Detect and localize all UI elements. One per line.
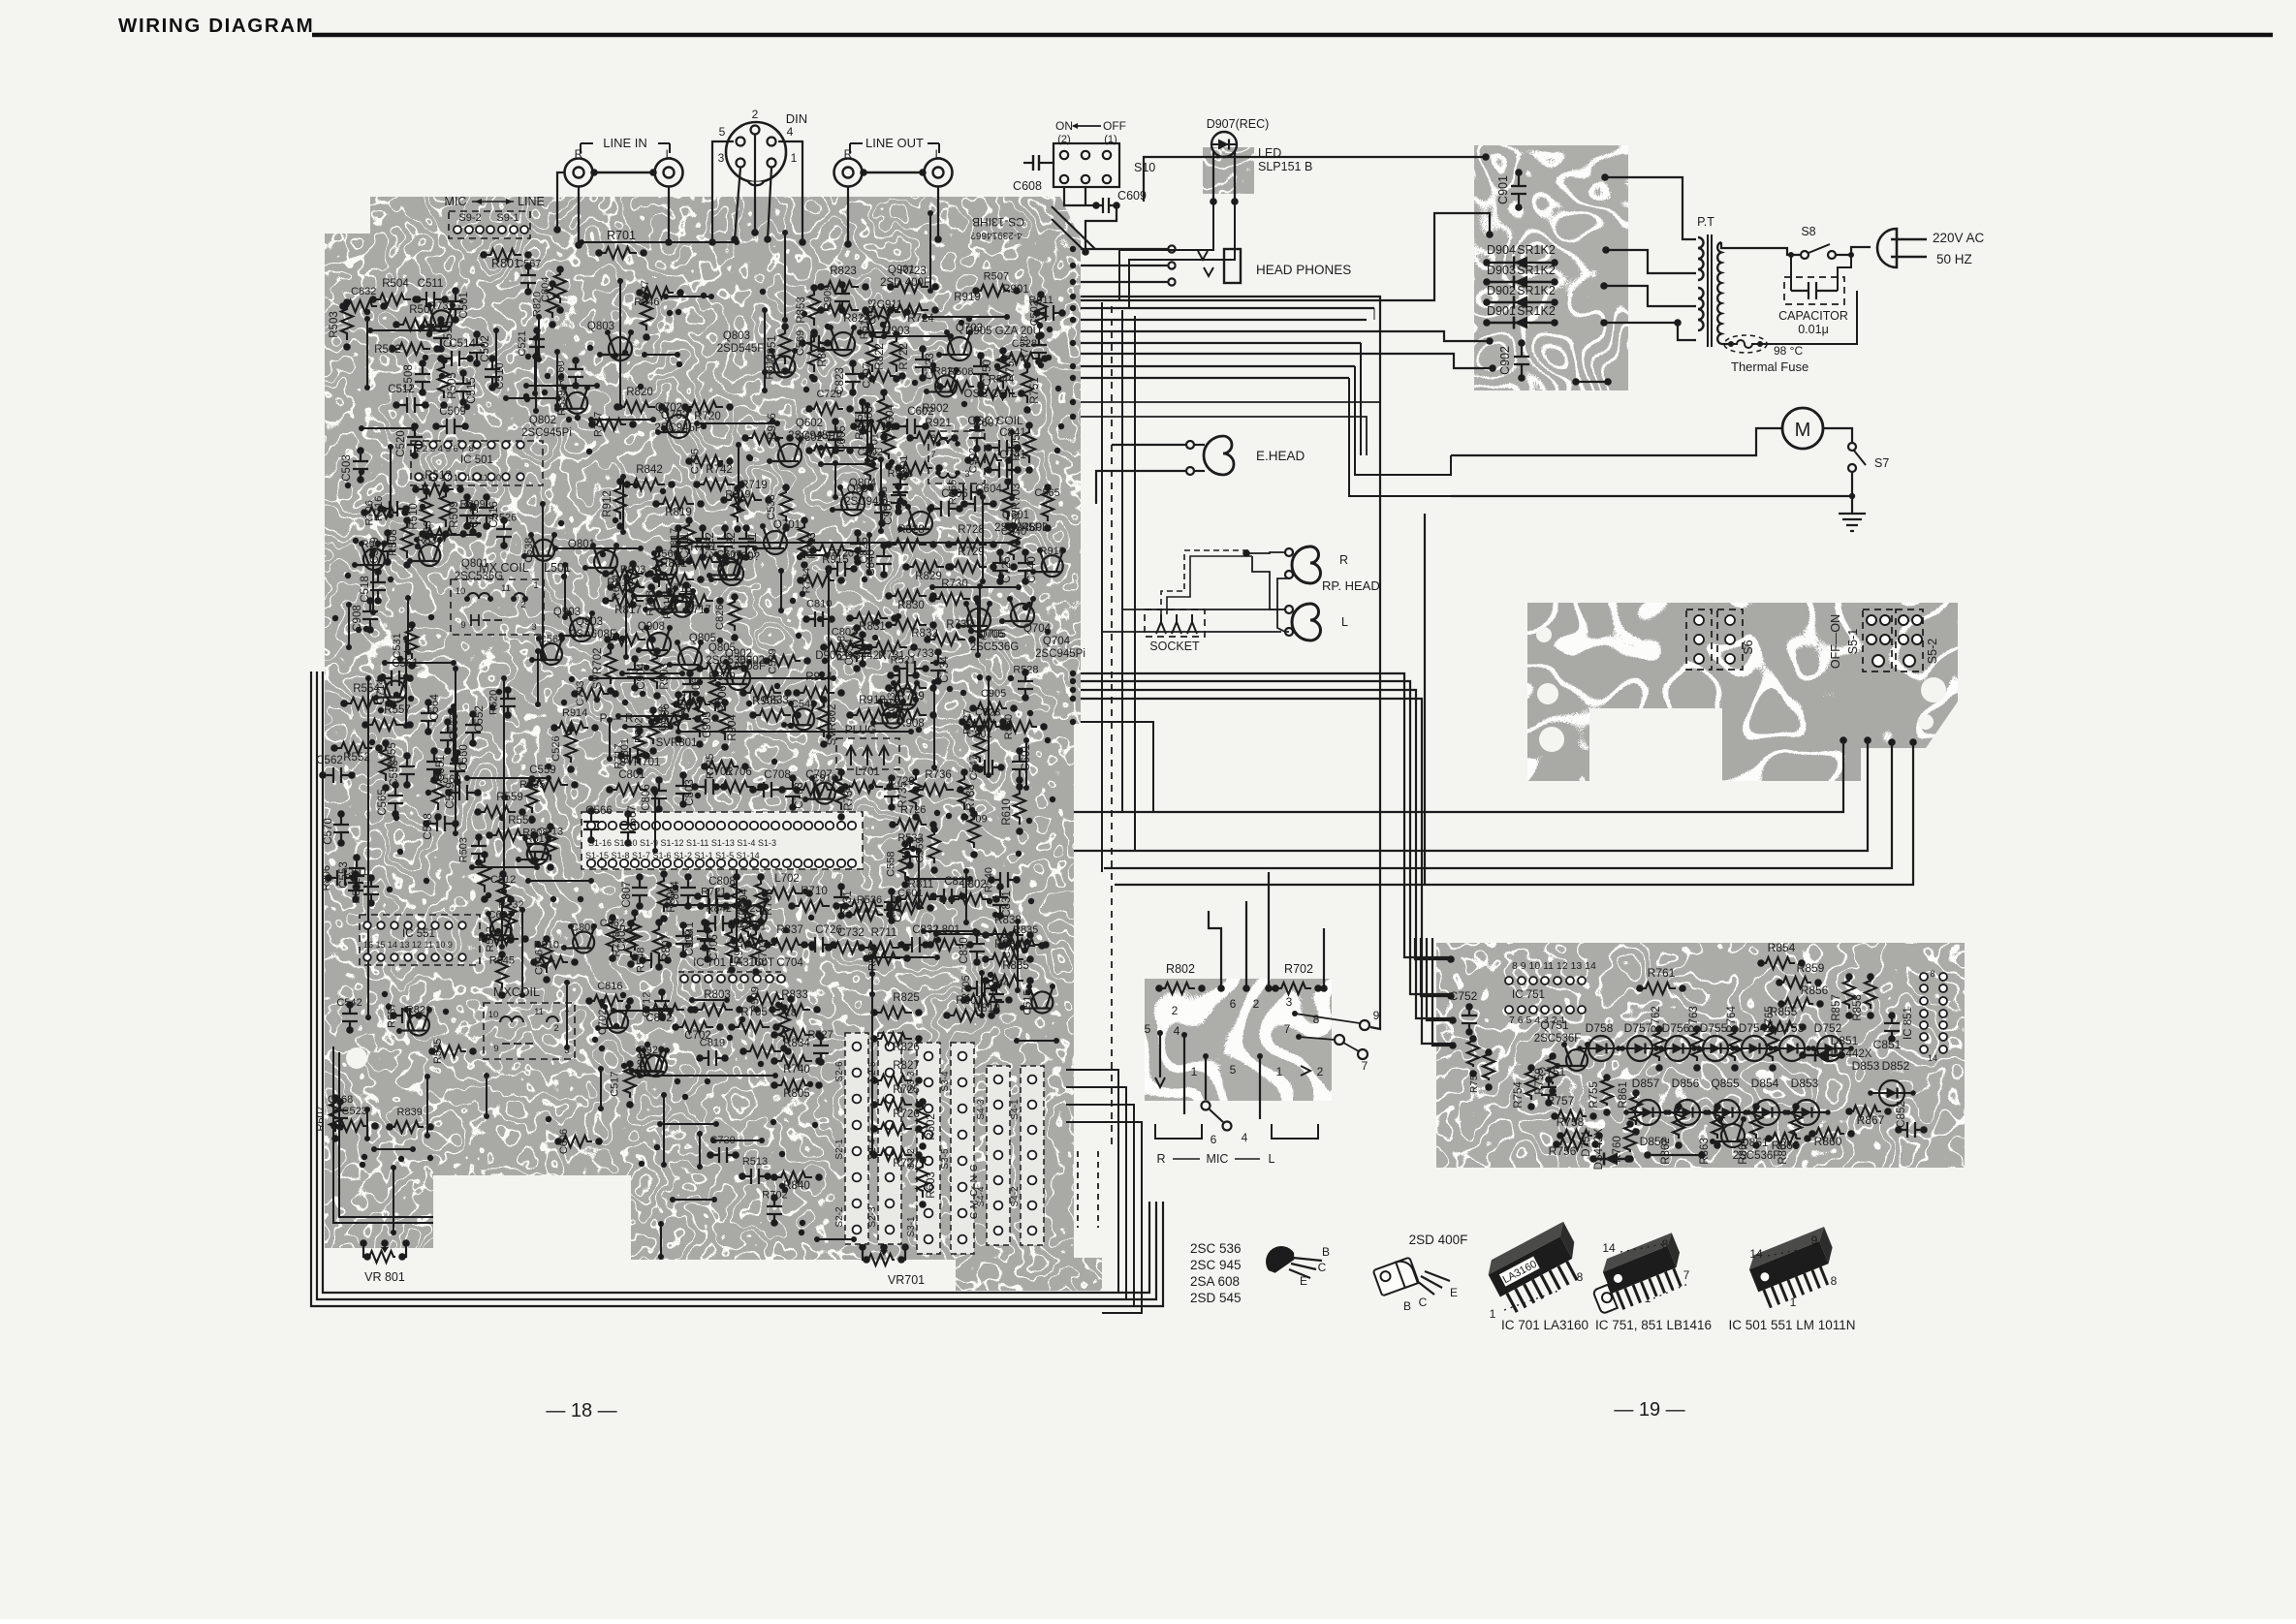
- component Q902: [727, 667, 750, 690]
- svg-text:S5-1: S5-1: [1846, 629, 1860, 654]
- svg-text:C527: C527: [640, 280, 651, 305]
- component C734: [930, 652, 946, 681]
- component R737?: [845, 900, 883, 912]
- component C732: [829, 942, 866, 953]
- head RP.HEAD R: [1292, 547, 1321, 583]
- component R703: [750, 927, 762, 965]
- component C808: [698, 889, 727, 904]
- svg-text:C705: C705: [689, 449, 701, 474]
- svg-text:R802: R802: [1166, 962, 1195, 976]
- svg-text:8: 8: [1313, 1013, 1320, 1026]
- svg-text:C702: C702: [597, 1010, 609, 1035]
- switch S10: [1054, 143, 1119, 187]
- svg-text:WIRING DIAGRAM: WIRING DIAGRAM: [118, 15, 314, 37]
- component R550: [1003, 721, 1037, 733]
- component C513: [433, 320, 449, 349]
- svg-text:R912: R912: [602, 490, 613, 517]
- component C823: [967, 721, 1001, 733]
- component R834: [419, 545, 440, 566]
- svg-text:C531: C531: [392, 633, 403, 658]
- wire corner diagonals: [1052, 206, 1095, 249]
- svg-text:1: 1: [1191, 1065, 1198, 1078]
- svg-text:D756: D756: [1662, 1021, 1690, 1035]
- component R751: [1022, 365, 1033, 403]
- component C516: [534, 956, 568, 968]
- potentiometer VR801: [360, 1239, 367, 1247]
- component R909: [834, 285, 850, 310]
- component C909: [676, 925, 691, 954]
- component R548: [643, 953, 668, 968]
- svg-text:R805: R805: [783, 1088, 810, 1100]
- svg-text:2: 2: [752, 108, 759, 121]
- component Q602: [778, 444, 802, 467]
- component R727: [874, 1149, 912, 1161]
- svg-text:2SC536: 2SC536: [706, 655, 746, 667]
- component R513: [742, 1169, 768, 1184]
- connector S9-2/S9-1: [449, 211, 530, 238]
- component R510: [421, 491, 432, 529]
- svg-text:R731: R731: [428, 300, 454, 312]
- svg-text:Q751: Q751: [1540, 1018, 1569, 1032]
- component R520: [500, 690, 516, 715]
- svg-text:C511: C511: [418, 278, 444, 290]
- svg-text:R75?: R75?: [1469, 1070, 1480, 1093]
- component C730: [710, 1147, 736, 1163]
- component R508: [940, 381, 974, 392]
- component C803: [676, 775, 691, 804]
- svg-text:R822: R822: [933, 365, 959, 377]
- svg-text:IC 501 551 LM 1011N: IC 501 551 LM 1011N: [1728, 1318, 1855, 1332]
- component C711: [739, 528, 754, 557]
- resistor R752/R753 cluster: [1467, 1039, 1479, 1067]
- component R853: [808, 288, 820, 326]
- svg-text:(1): (1): [1104, 134, 1117, 145]
- svg-text:C548: C548: [791, 699, 816, 710]
- component C832: [901, 937, 930, 953]
- svg-text:SVR702: SVR702: [592, 648, 604, 690]
- component R509: [440, 489, 452, 527]
- component C802: [646, 1004, 684, 1015]
- svg-text:HEAD PHONES: HEAD PHONES: [1256, 263, 1351, 277]
- svg-text:R760: R760: [1612, 1136, 1623, 1163]
- wire S10 to board: [1064, 187, 1096, 205]
- svg-text:R: R: [1156, 1152, 1165, 1166]
- svg-text:C608: C608: [1013, 179, 1042, 193]
- svg-text:R835: R835: [1002, 960, 1029, 972]
- svg-text:2: 2: [1172, 1004, 1179, 1017]
- svg-text:— 19 —: — 19 —: [1614, 1399, 1684, 1421]
- component C726: [804, 937, 833, 953]
- component R723: [742, 903, 754, 937]
- component R817: [606, 595, 644, 607]
- svg-text:S4-1: S4-1: [1010, 1099, 1021, 1120]
- svg-text:R511: R511: [666, 586, 677, 610]
- svg-text:Q602: Q602: [796, 418, 823, 429]
- component C569: [449, 785, 478, 800]
- svg-text:R912: R912: [817, 430, 842, 442]
- component R851: [779, 327, 791, 364]
- component R508: [401, 520, 413, 558]
- component R603: [917, 1160, 928, 1198]
- svg-text:R757: R757: [1547, 1094, 1575, 1108]
- svg-text:S2-6: S2-6: [834, 1061, 845, 1082]
- component R554: [344, 698, 382, 709]
- svg-text:R903: R903: [620, 564, 645, 576]
- svg-text:3: 3: [531, 622, 536, 633]
- component C825: [850, 533, 865, 562]
- component Q90?: [720, 562, 743, 585]
- svg-text:R756: R756: [1549, 1144, 1577, 1158]
- svg-text:SLP151 B: SLP151 B: [1258, 160, 1312, 173]
- component C508: [415, 363, 430, 392]
- svg-text:7: 7: [1284, 1022, 1291, 1036]
- component C566: [656, 558, 677, 579]
- svg-text:C: C: [1318, 1261, 1327, 1274]
- component L701: [845, 781, 883, 793]
- svg-text:R721: R721: [701, 886, 726, 897]
- component R526: [496, 520, 512, 546]
- component C521: [529, 330, 545, 356]
- component R835: [1005, 939, 1039, 951]
- svg-text:LINE IN: LINE IN: [603, 136, 647, 150]
- wire bundle main to right: [1070, 294, 1076, 299]
- svg-text:C823: C823: [975, 706, 1000, 718]
- svg-text:C606: C606: [558, 1129, 570, 1154]
- component R503: [471, 837, 487, 862]
- component R832: [889, 619, 927, 631]
- svg-text:R735: R735: [519, 779, 545, 791]
- svg-text:6: 6: [1211, 1133, 1217, 1146]
- component C531: [406, 625, 418, 659]
- component R555: [955, 484, 980, 500]
- component C511: [416, 292, 445, 307]
- svg-text:R504: R504: [382, 278, 409, 290]
- component R821: [408, 1015, 429, 1036]
- component R916: [745, 432, 783, 444]
- component R912: [614, 482, 626, 519]
- component R919: [732, 488, 743, 522]
- svg-text:C558: C558: [885, 852, 896, 877]
- component R560: [432, 772, 444, 810]
- svg-text:R527: R527: [808, 1029, 833, 1041]
- svg-text:C567: C567: [516, 259, 541, 270]
- component R918: [893, 476, 908, 501]
- svg-text:C514: C514: [449, 338, 476, 350]
- component C520: [407, 426, 423, 455]
- svg-text:C703: C703: [794, 782, 805, 809]
- component R601: [734, 935, 768, 947]
- wire S5/S6 drops: [1840, 736, 1847, 744]
- component C750: [973, 356, 989, 385]
- svg-text:R51?: R51?: [425, 470, 452, 482]
- svg-text:R845: R845: [854, 414, 865, 439]
- component C807: [632, 877, 647, 906]
- component C607: [969, 420, 985, 449]
- component R803: [695, 1004, 733, 1015]
- component C708: [753, 782, 782, 797]
- svg-text:2: 2: [553, 1023, 558, 1034]
- socket SOCKET: [1145, 609, 1205, 637]
- svg-text:16 15 14 13 12 11 10 9: 16 15 14 13 12 11 10 9: [363, 940, 453, 950]
- svg-text:R730: R730: [941, 578, 968, 590]
- component C829: [933, 889, 962, 904]
- svg-text:0.01μ: 0.01μ: [1798, 323, 1829, 336]
- component R810: [964, 994, 1002, 1006]
- component C805: [629, 913, 641, 951]
- svg-text:R738: R738: [645, 590, 656, 615]
- svg-text:R830: R830: [897, 600, 925, 611]
- svg-text:C569: C569: [445, 782, 456, 809]
- component C740: [1018, 552, 1033, 581]
- svg-text:220V AC: 220V AC: [1933, 231, 1985, 245]
- component R819: [527, 843, 549, 864]
- svg-text:R921: R921: [925, 418, 952, 429]
- svg-text:C: C: [1419, 1296, 1428, 1309]
- head RP.HEAD L: [1292, 604, 1321, 640]
- component R527: [813, 1037, 829, 1062]
- component R732: [928, 634, 965, 645]
- potentiometer VR701: [859, 1243, 866, 1251]
- component R718: [1031, 336, 1047, 361]
- svg-text:R823: R823: [830, 265, 857, 277]
- svg-text:L: L: [1341, 615, 1348, 629]
- svg-text:C567: C567: [627, 805, 639, 832]
- component R738: [654, 593, 676, 614]
- svg-text:4: 4: [1242, 1131, 1248, 1144]
- svg-text:R811: R811: [676, 692, 688, 716]
- connector S6 pads: [1686, 609, 1712, 670]
- component R912: [809, 445, 843, 456]
- component R505: [438, 360, 450, 398]
- component R557: [393, 1008, 419, 1023]
- svg-text:R751: R751: [1029, 377, 1041, 404]
- component R824: [821, 304, 859, 316]
- svg-text:C516: C516: [534, 950, 546, 975]
- component R722: [745, 905, 767, 926]
- component C718: [778, 1008, 790, 1042]
- svg-text:1: 1: [1276, 1065, 1283, 1078]
- svg-text:C552: C552: [474, 705, 486, 733]
- component R801: [634, 731, 645, 765]
- component R555: [380, 743, 392, 781]
- component C561: [381, 671, 410, 686]
- component C528: [1004, 353, 1038, 364]
- svg-text:C831: C831: [1001, 890, 1013, 918]
- svg-text:C714: C714: [375, 678, 387, 703]
- svg-text:3: 3: [1286, 995, 1293, 1009]
- svg-text:R544: R544: [984, 978, 1009, 989]
- component R704: [801, 575, 834, 586]
- svg-text:C568: C568: [328, 1094, 353, 1106]
- component C703: [785, 778, 801, 807]
- svg-text:C729: C729: [816, 389, 841, 400]
- svg-text:C609: C609: [1117, 189, 1147, 203]
- component R910: [1042, 555, 1063, 577]
- svg-text:D905 GZA 20U: D905 GZA 20U: [965, 326, 1041, 337]
- svg-text:R728: R728: [958, 524, 985, 536]
- wire internal long runs: [678, 542, 1018, 544]
- component C552: [465, 714, 481, 743]
- svg-text:C851: C851: [1873, 1038, 1902, 1051]
- component R706: [716, 781, 754, 793]
- component R560: [568, 360, 583, 386]
- wire LINE IN L down: [668, 186, 670, 242]
- component R536: [849, 909, 883, 921]
- svg-text:C807: C807: [621, 881, 633, 908]
- svg-text:C543: C543: [866, 299, 878, 325]
- svg-text:14: 14: [1602, 1241, 1616, 1255]
- component R832: [363, 878, 379, 903]
- svg-text:D852: D852: [1882, 1059, 1910, 1073]
- svg-text:SR1K2: SR1K2: [1517, 264, 1556, 277]
- component R741: [681, 556, 719, 568]
- transistor TO-92 drawing: [1260, 1240, 1298, 1275]
- svg-text:S2-3: S2-3: [867, 1206, 878, 1228]
- component C832: [343, 300, 377, 312]
- svg-text:R866: R866: [1772, 1139, 1800, 1152]
- component R735: [526, 779, 538, 813]
- svg-text:C520: C520: [395, 430, 407, 457]
- svg-text:S2-1: S2-1: [834, 1139, 845, 1160]
- component C519: [380, 533, 395, 562]
- svg-text:C905: C905: [702, 711, 713, 738]
- svg-text:C811: C811: [343, 866, 367, 878]
- svg-text:Q801: Q801: [461, 558, 488, 570]
- svg-text:14: 14: [1749, 1247, 1763, 1261]
- component R914: [797, 687, 834, 699]
- svg-text:R535: R535: [432, 1039, 444, 1064]
- svg-text:C566: C566: [653, 548, 678, 560]
- component R820: [547, 284, 558, 318]
- svg-text:11: 11: [501, 583, 511, 594]
- component C605: [828, 422, 843, 451]
- svg-text:SR1K2: SR1K2: [1517, 243, 1556, 257]
- component R716: [381, 501, 406, 516]
- component R717: [676, 595, 713, 607]
- component C508: [1001, 940, 1035, 952]
- svg-text:D757: D757: [1624, 1021, 1652, 1035]
- component R807: [653, 922, 665, 960]
- component R811: [676, 699, 710, 710]
- svg-text:Thermal Fuse: Thermal Fuse: [1731, 359, 1808, 374]
- svg-text:R904: R904: [727, 714, 739, 741]
- component C526: [565, 729, 577, 763]
- component R822: [866, 334, 878, 372]
- component R742: [697, 479, 735, 490]
- svg-text:R854: R854: [1768, 941, 1796, 954]
- component C741: [989, 462, 1018, 478]
- component Q801: [594, 550, 617, 574]
- wire power board right: [1601, 173, 1609, 181]
- svg-text:R513: R513: [742, 1156, 768, 1168]
- component C729: [884, 778, 899, 807]
- svg-text:R736: R736: [880, 697, 905, 708]
- switch S7: [1848, 443, 1856, 451]
- svg-text:R863: R863: [1699, 1138, 1711, 1165]
- component C542: [342, 1005, 358, 1030]
- component C908: [362, 601, 378, 630]
- svg-text:R819: R819: [665, 507, 692, 518]
- component R706: [364, 507, 398, 518]
- svg-text:L701: L701: [855, 766, 880, 778]
- component (unlabeled): [832, 332, 855, 356]
- wire LINE IN R down: [557, 172, 565, 230]
- component C811: [671, 528, 686, 557]
- component C823: [845, 363, 861, 392]
- component R710: [792, 900, 830, 912]
- component Q804: [841, 492, 865, 515]
- component C817: [683, 520, 695, 554]
- svg-text:C562: C562: [316, 755, 343, 766]
- svg-text:R822: R822: [874, 343, 886, 370]
- wire inner loop bottom-left: [333, 1046, 433, 1223]
- svg-text:C830: C830: [959, 937, 970, 964]
- component Q903: [570, 618, 593, 641]
- svg-text:1: 1: [1490, 1307, 1496, 1321]
- svg-text:C711: C711: [747, 533, 759, 559]
- svg-text:CS-13IHB: CS-13IHB: [972, 215, 1024, 229]
- component C507: [718, 559, 739, 580]
- component R730: [932, 593, 970, 605]
- svg-text:R906: R906: [717, 685, 729, 712]
- svg-text:S3-4: S3-4: [940, 1071, 951, 1092]
- svg-text:14: 14: [1928, 1053, 1937, 1063]
- svg-text:C560: C560: [458, 744, 470, 771]
- svg-text:R545: R545: [489, 954, 515, 966]
- component C727: [884, 891, 899, 921]
- svg-text:9: 9: [1811, 1234, 1818, 1247]
- component R753: [997, 351, 1009, 389]
- svg-text:— 18 —: — 18 —: [546, 1400, 616, 1421]
- component D906: [673, 695, 684, 733]
- svg-text:VR 801: VR 801: [364, 1270, 405, 1284]
- svg-text:R727: R727: [893, 1158, 920, 1170]
- component R559: [478, 806, 516, 818]
- component C725: [992, 552, 1008, 581]
- svg-text:C833: C833: [762, 695, 789, 706]
- component C563: [440, 722, 456, 751]
- component R836: [986, 953, 1023, 965]
- svg-text:R758: R758: [1557, 1115, 1585, 1129]
- svg-text:R509: R509: [449, 501, 460, 528]
- svg-text:S3-1: S3-1: [906, 1216, 917, 1237]
- svg-text:R608: R608: [836, 636, 848, 661]
- component C603: [855, 402, 870, 431]
- component R736: [882, 706, 903, 728]
- component C558: [399, 756, 415, 785]
- svg-text:D752: D752: [1814, 1021, 1842, 1035]
- svg-text:P.T: P.T: [1697, 215, 1714, 229]
- component R823: [821, 281, 859, 293]
- connector S2/S3 columns: [845, 1033, 868, 1244]
- component R839: [700, 663, 738, 674]
- svg-text:R809: R809: [459, 499, 485, 511]
- component C551: [426, 751, 442, 780]
- component C802: [824, 641, 858, 653]
- component C816: [589, 995, 623, 1007]
- svg-text:1: 1: [533, 580, 538, 591]
- component C733: [896, 661, 926, 676]
- svg-text:R604: R604: [611, 575, 622, 600]
- svg-text:B: B: [1403, 1299, 1411, 1313]
- component R504: [373, 294, 411, 305]
- connector IC551: [360, 915, 480, 965]
- svg-text:Q702: Q702: [661, 410, 688, 422]
- component C806: [651, 780, 667, 809]
- component R734: [835, 772, 847, 810]
- component C517: [624, 1064, 636, 1098]
- svg-text:R725: R725: [893, 1084, 920, 1096]
